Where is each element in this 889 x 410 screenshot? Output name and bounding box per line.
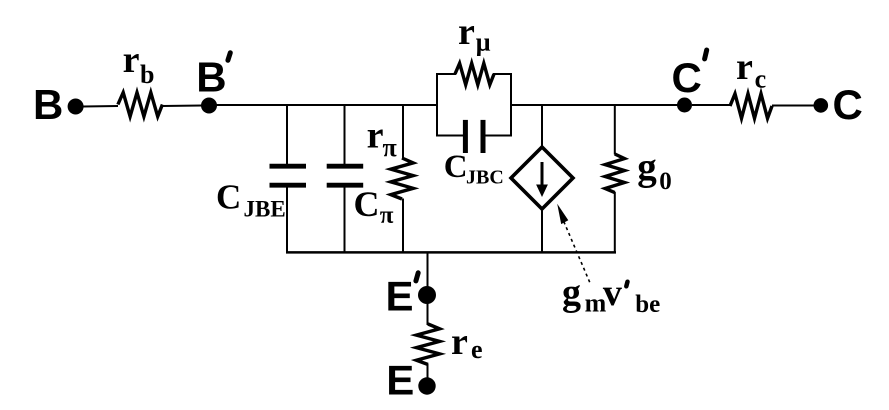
svg-text:g: g (637, 146, 657, 189)
svg-text:C: C (444, 149, 468, 185)
svg-text:v: v (603, 272, 622, 314)
svg-text:C: C (833, 81, 863, 128)
svg-text:μ: μ (476, 28, 491, 57)
svg-text:0: 0 (659, 168, 672, 195)
svg-text:JBC: JBC (466, 167, 504, 189)
svg-text:r: r (451, 321, 468, 363)
svg-text:be: be (635, 291, 660, 318)
svg-text:JBE: JBE (244, 197, 286, 222)
svg-text:π: π (380, 202, 394, 229)
svg-text:C: C (354, 184, 380, 224)
svg-text:r: r (458, 11, 475, 53)
svg-text:E: E (386, 273, 414, 320)
svg-text:B: B (196, 54, 226, 101)
svg-text:r: r (367, 115, 384, 157)
svg-text:π: π (383, 133, 397, 162)
svg-text:B: B (33, 81, 63, 128)
svg-text:e: e (471, 335, 483, 364)
svg-text:r: r (123, 39, 140, 81)
svg-text:r: r (736, 46, 753, 88)
svg-text:C: C (216, 178, 241, 217)
svg-text:C: C (672, 54, 702, 101)
svg-text:b: b (140, 60, 154, 89)
svg-text:c: c (755, 64, 767, 93)
svg-text:g: g (562, 272, 581, 314)
svg-text:E: E (386, 357, 414, 404)
